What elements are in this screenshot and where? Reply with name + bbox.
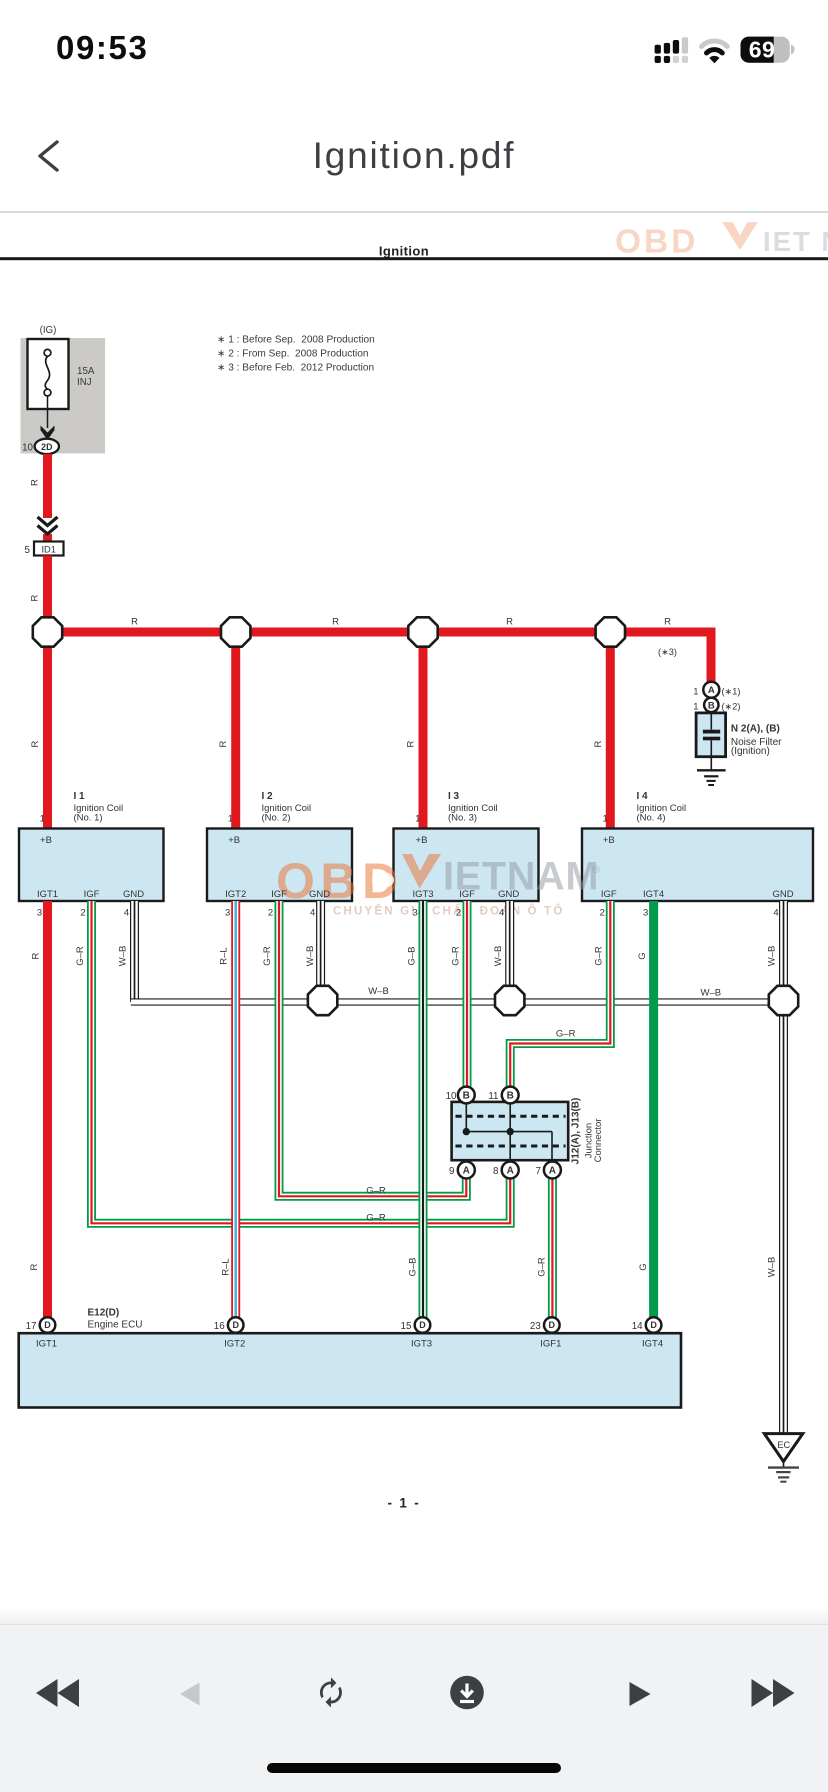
svg-text:W–B: W–B [305, 946, 316, 967]
wire R from 2D to ID1 [43, 454, 52, 518]
node: ECU pin 17 IGT1 [26, 1317, 57, 1349]
ground (noise filter) [697, 770, 726, 785]
node: junction connector pin B11 [502, 1087, 519, 1104]
node: wire colour labels above ECU [29, 1257, 778, 1278]
svg-text:(Ignition): (Ignition) [731, 746, 770, 757]
svg-text:R–L: R–L [219, 947, 230, 964]
svg-text:GND: GND [309, 889, 330, 900]
svg-text:B: B [507, 1091, 514, 1102]
wire G coil4 IGT4 to ECU IGT4 [649, 901, 658, 1318]
wire R coil1 IGT1 to ECU IGT1 [43, 901, 52, 1318]
svg-text:G–B: G–B [407, 946, 418, 965]
svg-text:Engine ECU: Engine ECU [88, 1320, 143, 1331]
svg-text:1: 1 [693, 702, 698, 713]
node: production notes [217, 335, 375, 374]
svg-text:2: 2 [600, 908, 605, 919]
node: bottom toolbar [0, 1607, 828, 1792]
wire G-R coil4 IGF to junction connector pin 11 [510, 901, 610, 1087]
svg-text:23: 23 [530, 1321, 541, 1332]
svg-text:W–B: W–B [767, 1257, 778, 1278]
svg-text:D: D [232, 1320, 239, 1330]
junction node C [408, 617, 437, 646]
svg-text:G–R: G–R [556, 1029, 576, 1040]
node: junction connector pin B10 [458, 1087, 475, 1104]
node: reload icon [320, 1677, 342, 1707]
svg-text:R: R [664, 617, 671, 628]
junction node A [33, 617, 62, 646]
svg-text:OBD: OBD [615, 224, 698, 261]
wire G-R junction connector pin 7 to ECU IGF1 [548, 1179, 557, 1318]
wire: faded OBD VIETNAM watermark (top right) [615, 222, 828, 261]
svg-text:4: 4 [499, 908, 504, 919]
svg-text:4: 4 [124, 908, 129, 919]
svg-text:G–R: G–R [366, 1213, 386, 1224]
ignition coil I4 labels [600, 791, 794, 919]
svg-text:A: A [507, 1166, 514, 1177]
connector ID1 pin 5 [25, 542, 64, 557]
svg-text:1: 1 [693, 687, 698, 698]
wire G-B coil3 IGT3 to ECU IGT3 [419, 901, 428, 1318]
ground EC [764, 1434, 803, 1482]
svg-text:R: R [131, 617, 138, 628]
junction node W-B 3 [769, 986, 798, 1015]
svg-text:R: R [30, 740, 41, 747]
node: ECU pin 15 IGT3 [401, 1317, 432, 1349]
svg-text:A: A [549, 1166, 556, 1177]
junction node B [221, 617, 250, 646]
svg-text:4: 4 [773, 908, 778, 919]
svg-text:I 4: I 4 [637, 791, 649, 802]
svg-text:R: R [406, 740, 417, 747]
svg-text:4: 4 [310, 908, 315, 919]
svg-text:(IG): (IG) [40, 325, 57, 336]
svg-text:IGT2: IGT2 [225, 889, 246, 900]
svg-text:EC: EC [777, 1440, 790, 1450]
svg-text:+B: +B [416, 835, 428, 846]
svg-text:+B: +B [228, 835, 240, 846]
node: rewind icon [36, 1679, 79, 1707]
svg-text:(∗3): (∗3) [658, 647, 677, 657]
node: junction connector name [571, 1098, 605, 1165]
svg-text:W–B: W–B [368, 986, 389, 997]
svg-text:IGT3: IGT3 [412, 889, 433, 900]
node: junction connector pin A8 [502, 1162, 519, 1179]
node: junction connector pin A7 [544, 1162, 561, 1179]
svg-text:G: G [637, 952, 648, 959]
svg-text:G: G [638, 1263, 649, 1270]
svg-text:IGF: IGF [601, 889, 617, 900]
node: ECU pin 23 IGF1 [530, 1317, 561, 1349]
wire W-B ground bus [131, 998, 784, 1005]
svg-text:IGF: IGF [271, 889, 287, 900]
svg-text:11: 11 [488, 1091, 498, 1102]
svg-text:IGT1: IGT1 [37, 889, 58, 900]
svg-text:IGF: IGF [84, 889, 100, 900]
node: status bar time [56, 29, 148, 67]
svg-text:17: 17 [26, 1321, 37, 1332]
svg-text:Ignition: Ignition [379, 244, 429, 259]
svg-text:1: 1 [40, 814, 45, 825]
svg-text:2: 2 [268, 908, 273, 919]
svg-text:R: R [506, 617, 513, 628]
svg-text:GND: GND [123, 889, 144, 900]
node: play icon [630, 1682, 651, 1706]
svg-text:®: ® [592, 864, 600, 876]
svg-text:R: R [593, 740, 604, 747]
svg-text:A: A [463, 1166, 470, 1177]
svg-text:R: R [30, 479, 41, 486]
svg-text:B: B [708, 700, 715, 711]
svg-text:+B: +B [603, 835, 615, 846]
ignition coil box x=19.0 [19, 829, 164, 902]
wire G-R coil2 IGF to junction connector pin 9 [279, 901, 466, 1196]
node: document title [0, 135, 828, 177]
svg-text:GND: GND [772, 889, 793, 900]
svg-text:R–L: R–L [221, 1258, 232, 1275]
svg-text:G–R: G–R [366, 1186, 386, 1197]
svg-text:B: B [463, 1091, 470, 1102]
svg-text:8: 8 [493, 1166, 499, 1177]
svg-text:∗ 1 : Before Sep. 2008 Produc: ∗ 1 : Before Sep. 2008 Production [217, 335, 375, 346]
svg-text:R: R [29, 1263, 40, 1270]
svg-text:G–R: G–R [537, 1257, 548, 1277]
svg-text:G–R: G–R [451, 946, 462, 966]
svg-text:Connector: Connector [593, 1119, 604, 1163]
svg-text:IGT2: IGT2 [224, 1339, 245, 1350]
svg-text:A: A [708, 685, 715, 696]
svg-text:15A: 15A [77, 366, 95, 377]
svg-text:- 1 -: - 1 - [387, 1496, 420, 1511]
node: status bar icons [0, 0, 828, 80]
wire R bus to coils and noise filter [48, 632, 712, 682]
svg-text:15: 15 [401, 1321, 412, 1332]
wire R drop to ignition coil 3 [419, 646, 428, 829]
ignition coil box x=582.0 [582, 829, 813, 902]
svg-text:I 2: I 2 [262, 791, 274, 802]
svg-text:J12(A), J13(B): J12(A), J13(B) [571, 1098, 582, 1165]
svg-text:INJ: INJ [77, 377, 92, 388]
svg-text:D: D [419, 1320, 426, 1330]
wire R drop to ignition coil 2 [231, 646, 240, 829]
svg-text:(No. 1): (No. 1) [74, 812, 103, 823]
svg-text:G–B: G–B [408, 1257, 419, 1276]
ignition coil box x=393.5 [394, 829, 539, 902]
svg-text:3: 3 [37, 908, 42, 919]
junction connector J12(A), J13(B) [452, 1102, 569, 1160]
node: previous page icon [180, 1683, 200, 1706]
svg-text:G–R: G–R [262, 946, 273, 966]
node: OBD VIETNAM watermark [276, 853, 600, 918]
node: Ignition page title [0, 244, 828, 261]
svg-text:R: R [332, 617, 339, 628]
svg-text:R: R [30, 594, 41, 601]
node: junction connector pin A9 [458, 1162, 475, 1179]
svg-text:IGT4: IGT4 [643, 889, 664, 900]
svg-text:N 2(A), (B): N 2(A), (B) [731, 724, 780, 735]
svg-text:G–R: G–R [594, 946, 605, 966]
wire R drop to ignition coil 4 [606, 646, 615, 829]
engine ECU E12(D) [19, 1308, 681, 1408]
node: ECU pin 16 IGT2 [214, 1317, 245, 1349]
node: download icon [450, 1676, 484, 1710]
svg-text:(No. 3): (No. 3) [448, 812, 477, 823]
node: fast-forward icon [752, 1679, 795, 1707]
wire W-B coil 2 GND drop [316, 901, 325, 988]
svg-text:IGF1: IGF1 [540, 1339, 561, 1350]
wire W-B down to EC ground [779, 1016, 788, 1433]
junction node D [596, 617, 625, 646]
wire W-B from coil 1 GND to bus [130, 901, 139, 1002]
svg-text:D: D [650, 1320, 657, 1330]
svg-text:IGT3: IGT3 [411, 1339, 432, 1350]
svg-text:10: 10 [22, 443, 33, 454]
junction node W-B 1 [308, 986, 337, 1015]
wire R-L coil2 IGT2 to ECU IGT2 [231, 901, 240, 1318]
svg-text:ID1: ID1 [41, 545, 55, 555]
wire G-R coil1 IGF to junction connector pin 8 [92, 901, 511, 1223]
svg-text:∗ 2 : From Sep. 2008 Producti: ∗ 2 : From Sep. 2008 Production [217, 349, 369, 360]
svg-text:3: 3 [412, 908, 417, 919]
svg-text:D: D [549, 1320, 556, 1330]
svg-text:1: 1 [228, 814, 233, 825]
svg-text:IGF: IGF [459, 889, 475, 900]
svg-text:10: 10 [446, 1091, 457, 1102]
svg-text:7: 7 [536, 1166, 541, 1177]
node: harness continuation chevrons [38, 517, 58, 534]
svg-text:5: 5 [25, 545, 31, 556]
svg-text:R: R [218, 740, 229, 747]
fuse 15A INJ [21, 325, 106, 453]
ignition coil I3 labels [412, 791, 519, 919]
svg-text:2: 2 [456, 908, 461, 919]
svg-text:(No. 2): (No. 2) [262, 812, 291, 823]
node: page top divider [0, 211, 828, 213]
node: home indicator [267, 1763, 561, 1773]
svg-text:∗ 3 : Before Feb. 2012 Produc: ∗ 3 : Before Feb. 2012 Production [217, 363, 374, 374]
svg-text:3: 3 [643, 908, 648, 919]
ignition coil I1 labels [37, 791, 144, 919]
svg-text:W–B: W–B [493, 946, 504, 967]
svg-text:G–R: G–R [75, 946, 86, 966]
svg-text:W–B: W–B [117, 946, 128, 967]
svg-text:D: D [44, 1320, 51, 1330]
svg-text:1: 1 [415, 814, 420, 825]
junction node W-B 2 [495, 986, 524, 1015]
svg-text:(∗1): (∗1) [722, 687, 741, 697]
svg-text:I 3: I 3 [448, 791, 460, 802]
svg-text:3: 3 [225, 908, 230, 919]
wire G-R coil3 IGF to junction connector pin 10 [463, 901, 472, 1087]
svg-text:(No. 4): (No. 4) [637, 812, 666, 823]
wire R from ID1 to junction A [43, 556, 52, 617]
svg-text:IET N: IET N [763, 226, 828, 257]
svg-text:2D: 2D [41, 442, 52, 452]
svg-text:2: 2 [80, 908, 85, 919]
svg-text:R: R [31, 952, 42, 959]
svg-text:W–B: W–B [767, 946, 778, 967]
svg-text:16: 16 [214, 1321, 225, 1332]
svg-text:(∗2): (∗2) [722, 702, 741, 712]
svg-text:IGT4: IGT4 [642, 1339, 663, 1350]
ignition coil box x=207.0 [207, 829, 352, 902]
svg-text:CHUYÊN GIA CHẨN ĐOÁN Ô TÔ: CHUYÊN GIA CHẨN ĐOÁN Ô TÔ [333, 905, 565, 918]
node: back button [0, 0, 90, 200]
svg-text:14: 14 [632, 1321, 643, 1332]
svg-text:W–B: W–B [701, 988, 722, 999]
svg-text:1: 1 [602, 814, 607, 825]
wire W-B coil 4 GND drop [779, 901, 788, 988]
svg-text:IGT1: IGT1 [36, 1339, 57, 1350]
svg-text:GND: GND [498, 889, 519, 900]
noise filter N2(A),(B) [693, 682, 782, 770]
connector 2D pin 10 [22, 439, 59, 454]
wire R drop to ignition coil 1 [43, 646, 52, 829]
node: wire colour labels under coils [31, 946, 778, 967]
wire W-B coil 3 GND drop [505, 901, 514, 988]
node: ECU pin 14 IGT4 [632, 1317, 663, 1349]
svg-text:9: 9 [449, 1166, 454, 1177]
svg-text:I 1: I 1 [74, 791, 86, 802]
ignition coil I2 labels [225, 791, 330, 919]
svg-text:+B: +B [40, 835, 52, 846]
svg-text:E12(D): E12(D) [88, 1308, 120, 1319]
